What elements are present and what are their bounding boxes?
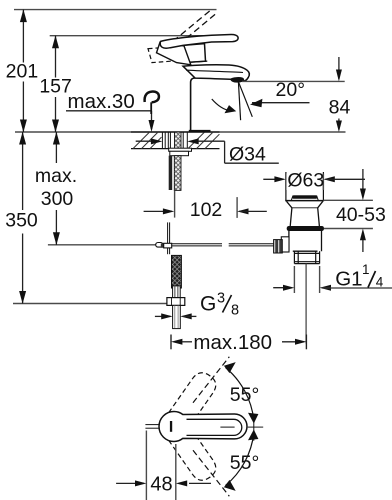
- svg-text:Ø34: Ø34: [229, 144, 266, 166]
- mounting shank through deck: [175, 132, 182, 148]
- faucet collar (cartridge housing): [183, 44, 206, 63]
- lever pin mark: [170, 421, 172, 432]
- max.30 arrow to deck: [151, 111, 153, 129]
- dashed handle capsule up: [164, 373, 216, 434]
- flange rim line: [285, 200, 324, 202]
- rod end cap: [156, 243, 163, 248]
- svg-text:84: 84: [329, 96, 351, 118]
- svg-text:20°: 20°: [276, 79, 306, 101]
- top view inner outline: [187, 419, 242, 435]
- rotation arc arrow: [212, 99, 231, 111]
- 350 reference line: [13, 303, 167, 305]
- dimension max.180: [170, 335, 172, 350]
- svg-text:max.: max.: [35, 165, 77, 187]
- water stream line vertical: [238, 82, 240, 121]
- pop-up rod plan: [145, 424, 159, 426]
- svg-text:55°: 55°: [230, 384, 260, 406]
- water stream line 20 deg: [238, 82, 252, 117]
- tailpipe: [294, 251, 319, 263]
- deck hatching left: [133, 132, 162, 149]
- svg-text:Ø63: Ø63: [287, 170, 324, 192]
- svg-text:201: 201: [6, 60, 39, 82]
- plug cap: [291, 196, 318, 200]
- deck slab: [131, 132, 220, 149]
- side port: [281, 237, 289, 252]
- centerline stub right: [247, 426, 263, 428]
- spout outlet beak: [231, 77, 244, 82]
- G3/8 diameter arrows: [155, 315, 171, 317]
- svg-text:300: 300: [41, 188, 74, 210]
- drain flange rim sides: [285, 172, 287, 200]
- reference line lever top (157 level): [50, 35, 224, 37]
- max.300 reference line: [48, 244, 157, 246]
- svg-text:350: 350: [5, 209, 38, 231]
- spout height reference line (84): [242, 80, 345, 82]
- o-ring: [287, 226, 324, 231]
- spout wedge: [183, 65, 249, 81]
- dimension 84: [338, 57, 340, 79]
- drain centerline: [305, 264, 307, 344]
- washer under deck: [169, 148, 192, 151]
- svg-text:55°: 55°: [230, 452, 260, 474]
- 55 deg arc upper: [226, 368, 254, 421]
- dashed handle capsule down: [164, 419, 216, 480]
- svg-text:3: 3: [217, 291, 225, 307]
- locknut: [170, 151, 189, 155]
- centerline dash inside: [220, 426, 234, 428]
- hex nut G3/8: [167, 298, 185, 306]
- flange skirt: [287, 201, 323, 226]
- supply tube: [173, 305, 181, 328]
- pop-up rod upper: [150, 102, 152, 114]
- top view solid handle outline: [159, 412, 247, 442]
- collar bottom contour: [181, 61, 208, 63]
- 55 deg arc lower: [226, 433, 254, 486]
- dimension Ø63: [285, 174, 287, 191]
- lever blade: [160, 34, 238, 48]
- svg-text:1: 1: [362, 262, 370, 277]
- svg-text:48: 48: [150, 473, 172, 495]
- svg-text:G1: G1: [335, 268, 362, 291]
- spout inner contour: [186, 70, 243, 72]
- dashed axis up: [193, 357, 229, 403]
- dimension 350: [22, 132, 24, 304]
- 20 deg leader: [252, 102, 310, 104]
- faucet column left edge: [191, 78, 196, 131]
- dashed axis down: [193, 450, 229, 496]
- threaded shank below deck: [174, 156, 181, 191]
- clevis block: [161, 243, 164, 247]
- pop-up rod vertical lower: [167, 222, 169, 254]
- flexible hose (braided): [172, 255, 182, 288]
- knurled knob: [274, 240, 283, 253]
- reference line top (201 level): [14, 9, 217, 11]
- svg-text:8: 8: [231, 303, 239, 319]
- svg-text:G: G: [200, 293, 216, 316]
- dashed lever knob (raised position): [148, 46, 184, 62]
- pop-up rod hook: [145, 92, 159, 103]
- dimension Ø34 leader: [136, 140, 160, 142]
- pop-up rod below deck (dark bar): [169, 156, 173, 190]
- G1 1/4 arrows: [273, 287, 292, 289]
- lever wedge: [157, 42, 191, 65]
- drain body: [289, 231, 322, 252]
- dimension 157: [55, 36, 57, 132]
- hose connector: [173, 286, 181, 298]
- svg-text:4: 4: [376, 275, 384, 290]
- deck hatching right: [188, 132, 219, 149]
- deck reference line: [15, 131, 346, 133]
- svg-text:max.180: max.180: [193, 331, 272, 354]
- dimension 48: [145, 431, 147, 500]
- dimension 201: [22, 10, 24, 132]
- dashed raised lever lines: [165, 10, 211, 48]
- dimension max.300: [55, 132, 57, 245]
- svg-text:40-53: 40-53: [336, 204, 386, 226]
- base contact thick deck segment: [189, 130, 211, 133]
- dimension 102: [174, 190, 176, 217]
- horizontal linkage rod: [157, 243, 222, 245]
- G1 1/4 extension lines: [293, 266, 295, 293]
- svg-text:102: 102: [190, 199, 223, 221]
- dimension 40-53: [323, 199, 373, 201]
- svg-text:max.30: max.30: [68, 90, 135, 113]
- arc end tick: [253, 414, 255, 441]
